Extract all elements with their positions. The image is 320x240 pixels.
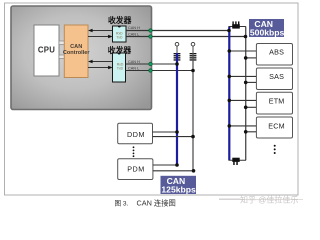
wire CAN L net 2 (126, 70, 194, 72)
wire right bus CAN L (gray) (245, 27, 247, 161)
wire ECM CAN L tap (246, 131, 257, 133)
wire mid bus CAN L (gray) (192, 53, 194, 171)
svg-text:PDM: PDM (127, 164, 145, 173)
junction ETM-H (228, 99, 232, 103)
wire TxD2 (controller to transceiver2, arrow right) (88, 66, 113, 70)
svg-text:知乎 @佳拉佳乐: 知乎 @佳拉佳乐 (240, 194, 298, 204)
svg-text:CAN L: CAN L (128, 32, 139, 36)
svg-text:Controller: Controller (63, 50, 91, 56)
wire SAS CAN L tap (246, 81, 257, 83)
terminator resistor right bus top (232, 21, 240, 28)
junction ETM-L (244, 106, 248, 110)
DDM box (118, 123, 153, 144)
ABS box (256, 44, 292, 66)
terminal circle mid bus L (191, 42, 195, 46)
SAS box (256, 68, 292, 90)
svg-text:125kbps: 125kbps (161, 185, 196, 195)
svg-text:CAN 连接图: CAN 连接图 (137, 198, 176, 207)
ECU module gray box (11, 6, 152, 110)
terminal circle mid bus H (175, 42, 179, 46)
svg-text:CAN H: CAN H (128, 60, 140, 64)
wire ETM CAN L tap (246, 106, 257, 108)
ellipsis below ECM (274, 145, 276, 154)
svg-text:CAN H: CAN H (128, 26, 140, 30)
wire DDM CAN H (153, 131, 178, 133)
junction PDM-L (192, 169, 196, 173)
wire ABS CAN H tap (229, 50, 256, 52)
terminator resistor mid bus L (190, 46, 197, 61)
junction CANL2-midbus (191, 69, 195, 73)
junction ECM-H (228, 124, 232, 128)
junction CANH1-rightbus (227, 29, 231, 33)
junction ABS-H (228, 49, 232, 53)
junction SAS-L (244, 81, 248, 85)
svg-text:ECM: ECM (268, 121, 285, 130)
junction PDM-H (175, 163, 179, 167)
wire TxD1 (controller to transceiver1, arrow right) (88, 35, 113, 39)
wire CAN L net 1 (126, 36, 246, 38)
junction ECM-L (244, 130, 248, 134)
junction DDM-L (191, 135, 195, 139)
bus stub 2 CPU-controller (59, 55, 64, 59)
junction SAS-H (228, 75, 232, 79)
svg-text:500kbps: 500kbps (250, 28, 285, 38)
svg-text:SAS: SAS (269, 72, 284, 81)
wire SAS CAN H tap (229, 75, 256, 77)
wire ABS CAN L tap (246, 57, 257, 59)
svg-text:ABS: ABS (269, 48, 284, 57)
svg-text:收发器: 收发器 (108, 15, 132, 25)
connector node CAN L 2 (green) (149, 69, 152, 72)
svg-text:CAN L: CAN L (128, 67, 139, 71)
transceiver U1 box (113, 26, 127, 42)
CPU box (34, 25, 59, 76)
svg-text:TxD: TxD (116, 36, 123, 40)
wire right bus bottom termination (229, 159, 247, 161)
wire right bus top termination (229, 26, 247, 28)
ECM box (256, 117, 292, 138)
svg-text:TxD: TxD (117, 67, 124, 71)
label CAN 500kbps (249, 19, 285, 38)
svg-text:图 3.: 图 3. (115, 199, 129, 207)
wire mid bus CAN H (blue) (176, 53, 178, 165)
connector node CAN H 1 (green) (149, 29, 152, 32)
connector node CAN H 2 (green) (149, 62, 152, 65)
transceiver U2 box (113, 53, 126, 82)
wire ECM CAN H tap (229, 125, 256, 127)
wire RxD2 (transceiver2 to controller, arrow left) (88, 60, 113, 64)
ETM box (256, 92, 292, 114)
wire ETM CAN H tap (229, 99, 256, 101)
connector node CAN L 1 (green) (149, 35, 152, 38)
svg-text:CPU: CPU (38, 46, 55, 55)
wire CAN H net 2 (126, 63, 178, 65)
wire PDM CAN H (153, 164, 177, 166)
label CAN 125kbps (161, 176, 197, 195)
terminator resistor right bus bottom (232, 158, 239, 165)
ellipsis DDM-PDM (133, 146, 135, 157)
bus stub 1 CPU-controller (59, 41, 64, 45)
CAN Controller box (63, 25, 91, 78)
watermark (219, 198, 240, 200)
wire RxD1 (transceiver1 to controller, arrow left) (88, 29, 113, 33)
wire CAN H net 1 (126, 30, 229, 32)
wire PDM CAN L (153, 170, 194, 172)
terminator resistor mid bus H (174, 46, 181, 61)
junction DDM-H (175, 130, 179, 134)
svg-text:DDM: DDM (127, 130, 145, 139)
PDM box (118, 159, 153, 180)
wire right bus CAN H (blue) (228, 27, 230, 161)
svg-text:ETM: ETM (269, 97, 285, 106)
wire DDM CAN L (153, 136, 194, 138)
junction CANH2-midbus (175, 62, 179, 66)
junction ABS-L (244, 56, 248, 60)
junction CANL1-rightbus (244, 35, 248, 39)
